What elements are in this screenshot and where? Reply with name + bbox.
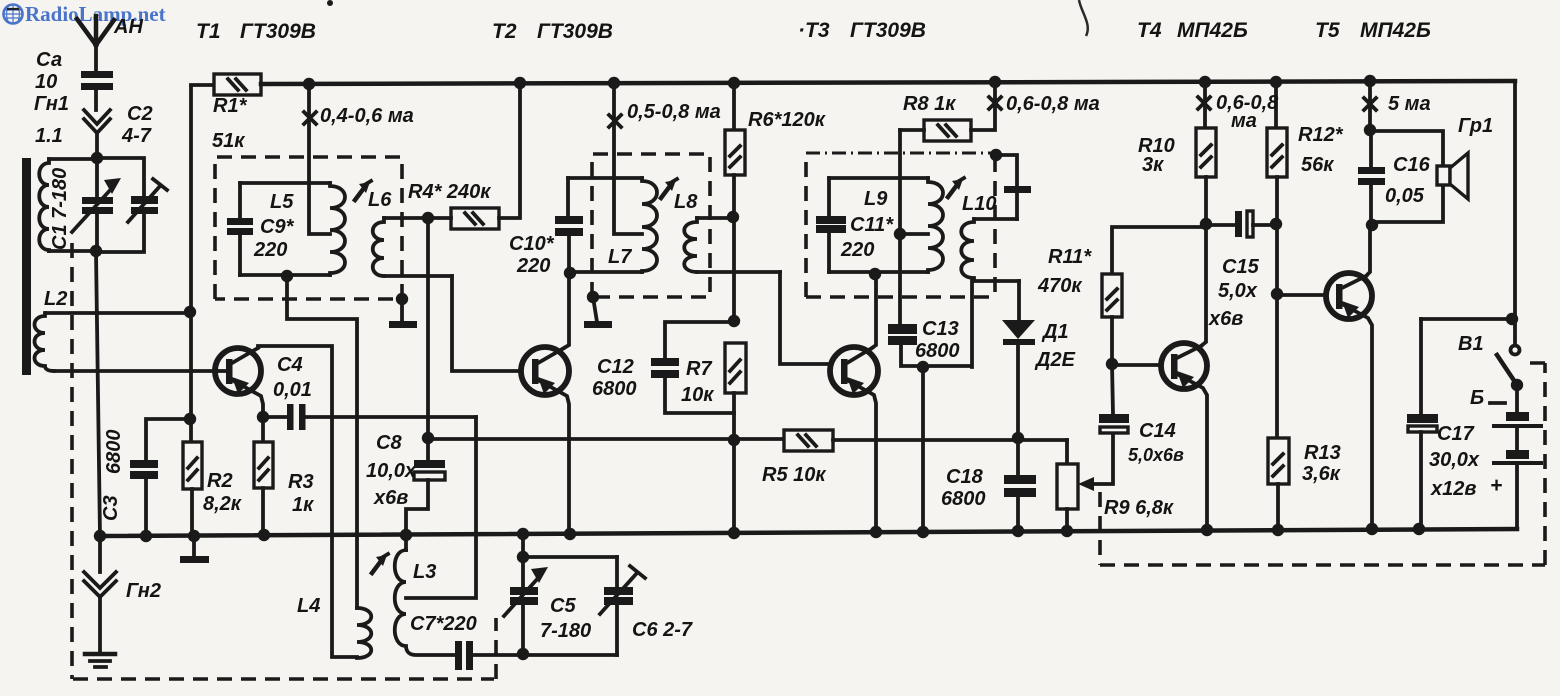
svg-text:8,2к: 8,2к	[203, 493, 242, 515]
inductor L2	[35, 313, 217, 371]
capacitor C8	[406, 438, 445, 535]
RadioLamp.net logo globe icon	[4, 5, 23, 24]
node tank3 bottom	[869, 268, 881, 280]
svg-text:R4* 240к: R4* 240к	[408, 181, 491, 203]
capacitor C14	[1099, 364, 1129, 433]
capacitor C18	[1004, 475, 1036, 530]
node R6 AGC junction	[728, 434, 740, 446]
potentiometer R9	[1057, 433, 1113, 530]
jack Гн2	[84, 537, 116, 653]
svg-text:Са: Са	[36, 49, 62, 71]
wire C17 to switch line	[1421, 317, 1512, 321]
svg-text:4-7: 4-7	[121, 125, 152, 147]
transistor T5	[1277, 273, 1372, 529]
svg-text:ГТ309В: ГТ309В	[240, 20, 316, 43]
resistor R3	[254, 417, 273, 535]
ground below R2	[180, 537, 209, 563]
current mark T5	[1364, 98, 1376, 110]
node L2 top junction	[184, 306, 196, 318]
earth ground	[85, 654, 115, 667]
capacitor C7	[455, 641, 617, 670]
svg-text:7-180: 7-180	[540, 620, 591, 642]
node tank1 bottom	[281, 270, 293, 282]
node C3 junction	[184, 413, 196, 425]
dashed shield box tank3	[806, 153, 995, 297]
inductor L1	[39, 159, 97, 251]
antenna АН	[77, 16, 114, 71]
node T5 base junction	[1271, 288, 1283, 300]
node antenna junction	[91, 152, 103, 164]
svg-text:Гн2: Гн2	[126, 580, 161, 602]
svg-text:R6*120к: R6*120к	[748, 109, 826, 131]
dashed gang link from C1	[70, 243, 74, 679]
svg-text:С17: С17	[1437, 423, 1475, 445]
svg-text:МП42Б: МП42Б	[1177, 19, 1248, 42]
capacitor C12	[651, 322, 734, 413]
inductor L7	[568, 178, 657, 272]
wire top rail	[261, 81, 1515, 84]
resistor R11	[1102, 227, 1206, 364]
node C16 top	[1364, 124, 1376, 136]
capacitor C6 trimmer	[600, 557, 645, 655]
dashed shield box tank1	[215, 157, 402, 299]
svg-text:R1*: R1*	[213, 95, 248, 117]
node R4 junction	[422, 212, 434, 224]
svg-text:В1: В1	[1458, 333, 1484, 355]
node shield ground tank3	[990, 149, 1002, 161]
svg-text:10: 10	[35, 71, 57, 93]
node L8 top junction	[727, 211, 739, 223]
battery Б	[1492, 385, 1543, 529]
transistor T2	[521, 347, 569, 533]
node T2 emitter rail	[564, 528, 576, 540]
current mark T1	[304, 112, 316, 124]
svg-text:6800: 6800	[592, 378, 637, 400]
svg-text:ГТ309В: ГТ309В	[537, 20, 613, 43]
core arrow L8	[661, 179, 677, 198]
svg-text:·Т3: ·Т3	[798, 19, 830, 42]
svg-text:С15: С15	[1222, 256, 1260, 278]
inductor L10	[961, 219, 1019, 281]
svg-text:ГТ309В: ГТ309В	[850, 19, 926, 42]
svg-text:6800: 6800	[915, 340, 960, 362]
svg-text:5 ма: 5 ма	[1388, 93, 1431, 115]
dashed link R9 to B1	[1100, 363, 1545, 565]
wire L8 to T3 base	[780, 272, 830, 364]
resistor R6	[725, 84, 745, 321]
svg-text:С1 7-180: С1 7-180	[49, 168, 71, 250]
svg-text:R7: R7	[686, 358, 712, 380]
node R9 rail	[1061, 525, 1073, 537]
node C5 top	[517, 551, 529, 563]
svg-text:0,6-0,8 ма: 0,6-0,8 ма	[1006, 93, 1100, 115]
core arrow L3 L4	[372, 554, 388, 573]
node R7 rail	[728, 527, 740, 539]
svg-text:3к: 3к	[1142, 154, 1164, 176]
svg-text:5,0х: 5,0х	[1218, 280, 1258, 302]
svg-text:+: +	[1490, 474, 1502, 497]
node L3 rail	[400, 529, 412, 541]
svg-text:220: 220	[516, 255, 550, 277]
svg-text:L6: L6	[368, 189, 392, 211]
wire C13 node to rail	[921, 367, 925, 531]
node C5 rail	[517, 528, 529, 540]
svg-text:220: 220	[840, 239, 874, 261]
wire T1 collector to L4	[258, 346, 357, 657]
node R12 C15 junction	[1270, 218, 1282, 230]
resistor R7	[725, 343, 746, 531]
wire bias line x190	[189, 86, 193, 442]
node C17 rail	[1413, 523, 1425, 535]
inductor L4	[357, 608, 371, 658]
svg-text:Гр1: Гр1	[1458, 115, 1493, 137]
wire T2 collector	[564, 273, 569, 348]
svg-text:220: 220	[253, 239, 287, 261]
svg-text:0,01: 0,01	[273, 379, 312, 401]
transistor T3	[830, 347, 878, 531]
node C18 rail	[1012, 525, 1024, 537]
node C16 bottom	[1366, 219, 1378, 231]
svg-text:L2: L2	[44, 288, 67, 310]
wire L6 to T2 base	[452, 276, 521, 371]
ground under tank1	[389, 299, 417, 328]
svg-text:С7*220: С7*220	[410, 613, 477, 635]
core arrow L6	[355, 181, 371, 200]
svg-text:х6в: х6в	[373, 487, 408, 509]
dashed gang link to C5	[73, 618, 496, 679]
inductor L8	[684, 218, 780, 272]
svg-text:5,0х6в: 5,0х6в	[1128, 445, 1184, 465]
svg-text:С8: С8	[376, 432, 402, 454]
wire bottom rail	[100, 529, 1517, 536]
wire T2 collector feed tap	[614, 84, 642, 234]
capacitor C2 trimmer	[96, 158, 167, 252]
capacitor C5 variable	[504, 535, 617, 654]
svg-text:R3: R3	[288, 471, 314, 493]
svg-text:R8 1к: R8 1к	[903, 93, 956, 115]
svg-text:С12: С12	[597, 356, 634, 378]
inductor L5	[240, 183, 345, 275]
wire tank1 to L4 top	[287, 276, 357, 608]
ground above L10	[996, 155, 1031, 219]
current mark T4	[1198, 97, 1210, 109]
svg-text:30,0х: 30,0х	[1429, 449, 1480, 471]
resistor R12	[1267, 82, 1287, 438]
dashed shield box tank2	[592, 154, 710, 297]
svg-text:R5 10к: R5 10к	[762, 464, 826, 486]
svg-text:Т2: Т2	[492, 20, 517, 43]
wire L10 to C13	[970, 281, 974, 367]
svg-text:0,5-0,8 ма: 0,5-0,8 ма	[627, 101, 721, 123]
node C10 bottom	[564, 267, 576, 279]
resistor R13	[1268, 438, 1289, 530]
resistor R2	[183, 442, 202, 535]
capacitor C10	[555, 178, 583, 272]
wire R8 to L9 tap and C13	[900, 130, 928, 324]
wire L3 tap	[406, 417, 476, 598]
svg-text:56к: 56к	[1301, 154, 1334, 176]
scan speck	[327, 0, 333, 6]
svg-text:С2: С2	[127, 103, 153, 125]
capacitor C16	[1358, 81, 1385, 223]
svg-text:ма: ма	[1231, 110, 1257, 132]
svg-text:R2: R2	[207, 470, 233, 492]
svg-text:R12*: R12*	[1298, 124, 1344, 146]
svg-text:АН: АН	[113, 16, 143, 38]
node shield ground junction	[396, 293, 408, 305]
inductor L6	[373, 218, 452, 276]
node T4 base junction	[1106, 358, 1118, 370]
svg-text:Д2Е: Д2Е	[1034, 349, 1076, 371]
svg-text:R13: R13	[1304, 442, 1341, 464]
svg-text:L5: L5	[270, 191, 294, 213]
node C5 bottom	[517, 648, 529, 660]
svg-text:Гн1: Гн1	[34, 93, 69, 115]
node C13 junction	[917, 361, 929, 373]
svg-text:L7: L7	[608, 246, 632, 268]
resistor R10	[1196, 82, 1216, 224]
resistor R8	[900, 82, 995, 141]
svg-text:С9*: С9*	[260, 216, 295, 238]
node switch line junction	[1506, 313, 1518, 325]
svg-text:С16: С16	[1393, 154, 1431, 176]
node C3 rail	[140, 530, 152, 542]
transistor T1	[215, 348, 263, 417]
node T3 emitter rail	[870, 526, 882, 538]
inductor L3	[395, 536, 456, 655]
svg-text:Б: Б	[1470, 387, 1484, 409]
capacitor C3	[130, 419, 190, 536]
scan artifact curve	[1079, 0, 1088, 36]
node R3 rail	[258, 529, 270, 541]
capacitor C15	[1206, 211, 1276, 237]
svg-text:С13: С13	[922, 318, 959, 340]
node C4/R3 junction	[257, 411, 269, 423]
svg-text:С4: С4	[277, 354, 303, 376]
svg-text:10,0х: 10,0х	[366, 460, 417, 482]
ferrite rod bar	[22, 158, 31, 375]
svg-text:С18: С18	[946, 466, 984, 488]
diode D1	[1002, 281, 1035, 475]
svg-text:470к: 470к	[1037, 275, 1082, 297]
svg-text:С14: С14	[1139, 420, 1176, 442]
wire T5 collector	[1366, 225, 1370, 276]
wire T3 collector	[872, 274, 876, 348]
node C15 left junction	[1200, 218, 1212, 230]
node R2 rail	[188, 530, 200, 542]
svg-text:L9: L9	[864, 188, 888, 210]
node C8 junction	[422, 432, 434, 444]
speaker Гр1	[1370, 131, 1468, 222]
capacitor C13	[888, 324, 971, 366]
svg-text:51к: 51к	[212, 130, 245, 152]
svg-text:С5: С5	[550, 595, 576, 617]
node R13 rail	[1272, 524, 1284, 536]
resistor R4	[428, 84, 520, 229]
svg-text:х12в: х12в	[1430, 478, 1476, 500]
transistor T4	[1112, 343, 1207, 530]
current mark T3	[989, 97, 1001, 109]
svg-text:Т4: Т4	[1137, 19, 1162, 42]
svg-text:Д1: Д1	[1041, 321, 1069, 343]
wire T4 collector	[1201, 224, 1206, 346]
node rail dots top	[303, 78, 315, 90]
svg-text:0,4-0,6 ма: 0,4-0,6 ма	[320, 105, 414, 127]
svg-text:0,05: 0,05	[1385, 185, 1425, 207]
svg-text:Т1: Т1	[196, 20, 221, 43]
wire antenna line down	[96, 252, 100, 536]
capacitor Ca	[81, 71, 113, 110]
svg-text:С11*: С11*	[850, 214, 894, 236]
svg-text:Т5: Т5	[1315, 19, 1340, 42]
svg-text:L8: L8	[674, 191, 698, 213]
svg-text:1.1: 1.1	[35, 125, 63, 147]
svg-text:6800: 6800	[103, 430, 125, 475]
svg-text:10к: 10к	[681, 384, 714, 406]
ground under tank2	[584, 297, 612, 328]
svg-text:L4: L4	[297, 595, 320, 617]
svg-text:L10: L10	[962, 193, 996, 215]
resistor R1	[191, 74, 261, 95]
node L9 tap	[894, 228, 906, 240]
node rail left end	[94, 530, 106, 542]
svg-text:6800: 6800	[941, 488, 986, 510]
node R7 top junction	[728, 315, 740, 327]
capacitor C9	[227, 183, 253, 275]
capacitor C17	[1407, 319, 1438, 529]
svg-text:1к: 1к	[292, 494, 314, 516]
wire R4 node down to AGC	[426, 218, 430, 438]
core arrow L10	[948, 178, 964, 197]
inductor L9	[829, 178, 943, 272]
node T5 emitter rail	[1366, 523, 1378, 535]
resistor R5	[428, 430, 1067, 451]
switch B1	[1497, 346, 1523, 392]
svg-text:С10*: С10*	[509, 233, 555, 255]
svg-text:R9 6,8к: R9 6,8к	[1104, 497, 1174, 519]
node D1 AGC junction	[1012, 432, 1024, 444]
svg-text:С6 2-7: С6 2-7	[632, 619, 693, 641]
node T4 emitter rail	[1201, 524, 1213, 536]
svg-text:R11*: R11*	[1048, 246, 1092, 268]
capacitor C4	[263, 404, 476, 430]
wire right edge down	[1513, 81, 1517, 345]
current mark T2	[609, 115, 621, 127]
svg-text:С3: С3	[100, 495, 122, 521]
jack Гн1	[84, 110, 110, 158]
node shield ground tank2	[587, 291, 599, 303]
svg-text:МП42Б: МП42Б	[1360, 19, 1431, 42]
capacitor C11	[816, 178, 846, 272]
svg-text:3,6к: 3,6к	[1302, 463, 1341, 485]
wire T1 collector feed tap	[309, 84, 330, 234]
node C13 rail	[917, 526, 929, 538]
svg-text:L3: L3	[413, 561, 436, 583]
svg-text:х6в: х6в	[1208, 308, 1243, 330]
node C1 bottom junction	[90, 245, 102, 257]
capacitor C1 variable	[72, 158, 121, 251]
